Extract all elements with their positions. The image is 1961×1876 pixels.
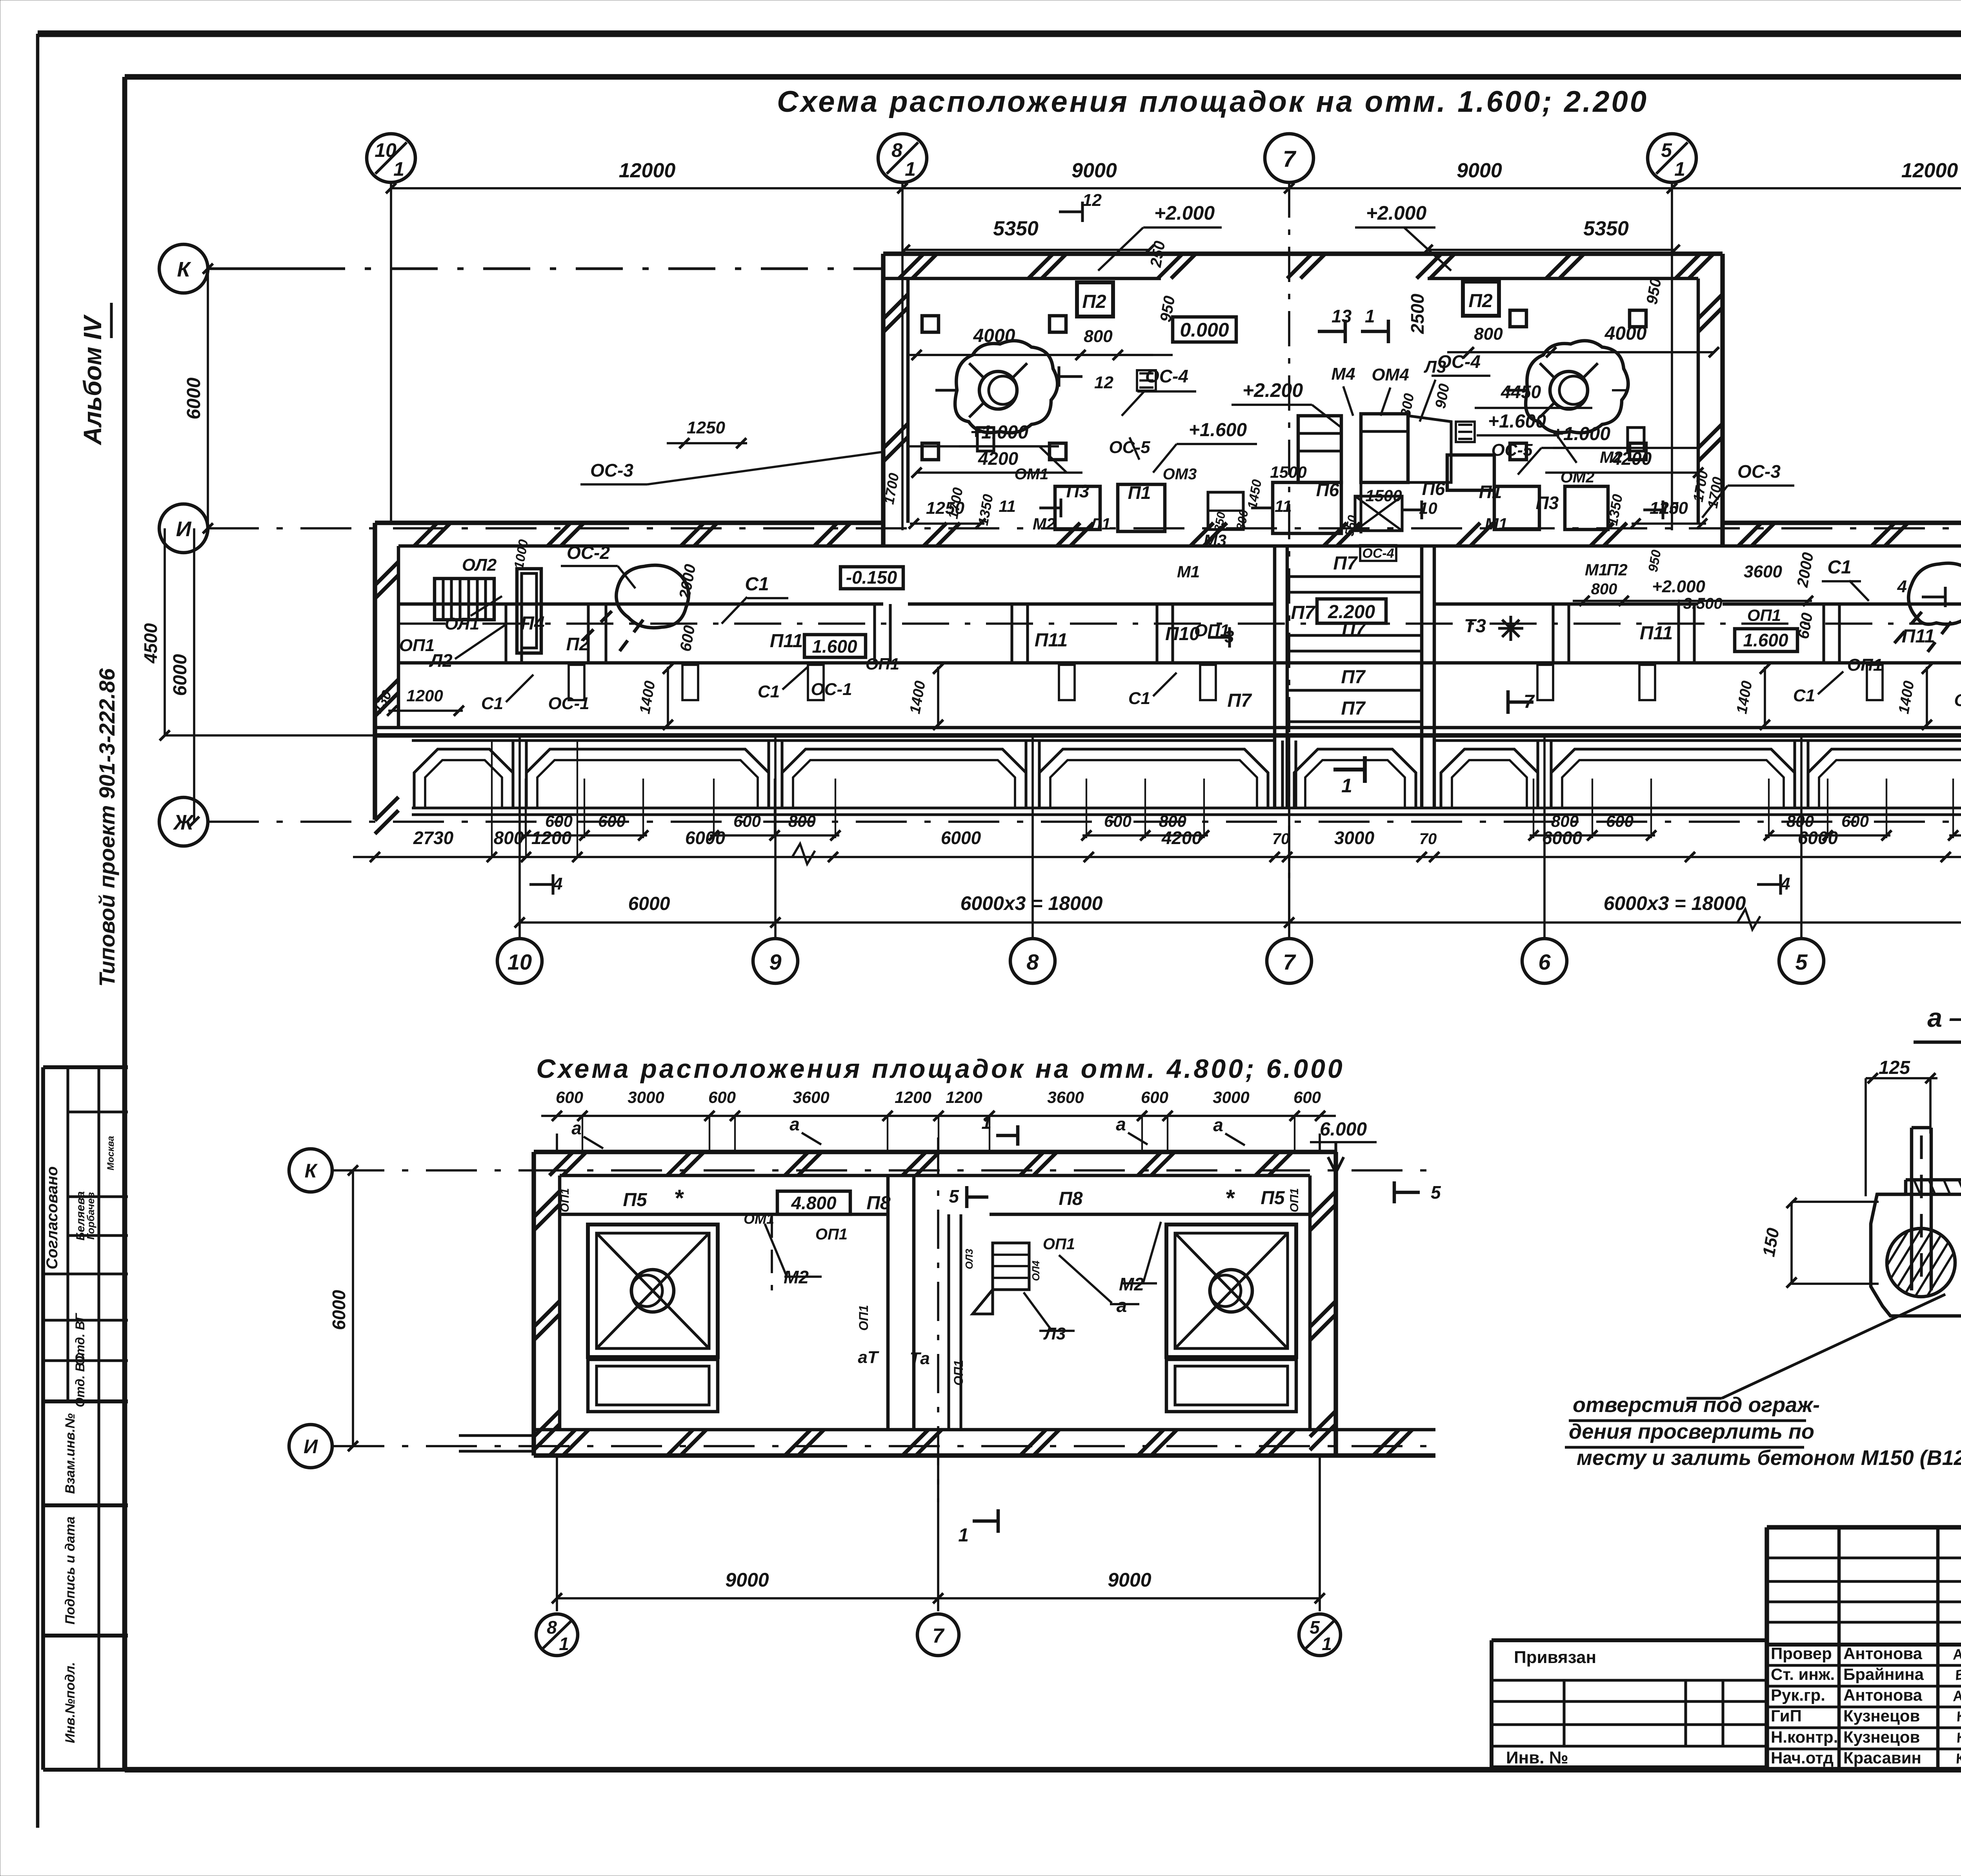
svg-text:а: а [1116, 1114, 1126, 1134]
svg-text:ОМ1: ОМ1 [744, 1211, 774, 1227]
svg-text:5350: 5350 [993, 217, 1039, 240]
svg-text:+1.600: +1.600 [1189, 420, 1247, 440]
svg-text:3600: 3600 [1744, 562, 1782, 581]
svg-text:5: 5 [949, 1186, 959, 1206]
svg-text:10: 10 [508, 950, 532, 974]
svg-text:П5: П5 [623, 1190, 648, 1210]
svg-text:70: 70 [1419, 830, 1437, 848]
svg-text:Л3: Л3 [1043, 1324, 1066, 1343]
svg-text:Нач.отд: Нач.отд [1771, 1749, 1834, 1767]
svg-text:6000: 6000 [329, 1290, 349, 1330]
svg-text:12: 12 [1094, 373, 1113, 392]
svg-text:ОС-1: ОС-1 [1954, 691, 1961, 710]
svg-text:И: И [176, 517, 192, 541]
svg-text:С1: С1 [1827, 557, 1851, 578]
svg-text:Л2: Л2 [429, 650, 453, 671]
svg-text:8: 8 [1026, 950, 1039, 974]
svg-text:ОС-5: ОС-5 [1491, 440, 1533, 460]
svg-text:800: 800 [494, 828, 524, 848]
svg-text:С1: С1 [481, 694, 503, 713]
svg-text:ОС-4: ОС-4 [1145, 366, 1188, 386]
svg-text:8: 8 [547, 1617, 557, 1638]
svg-text:П11: П11 [1640, 623, 1673, 644]
svg-text:П2: П2 [1468, 291, 1493, 311]
svg-text:Отд. ВС: Отд. ВС [73, 1354, 87, 1407]
svg-text:дения просверлить по: дения просверлить по [1569, 1420, 1814, 1443]
svg-text:ОМ3: ОМ3 [1163, 466, 1197, 483]
svg-text:ОП1: ОП1 [399, 636, 435, 655]
svg-text:Н.контр.: Н.контр. [1771, 1728, 1838, 1746]
svg-text:ОС-5: ОС-5 [1109, 438, 1150, 457]
svg-text:М2: М2 [1033, 515, 1055, 533]
svg-text:а: а [1117, 1296, 1127, 1316]
svg-text:ОП1: ОП1 [951, 1360, 966, 1386]
svg-text:600: 600 [1293, 1088, 1321, 1106]
svg-text:ОЛ1: ОЛ1 [445, 614, 479, 633]
svg-text:Согласовано: Согласовано [44, 1166, 61, 1270]
svg-text:П4: П4 [520, 613, 544, 634]
svg-text:6000х3 = 18000: 6000х3 = 18000 [1604, 892, 1746, 914]
svg-text:ОЛ2: ОЛ2 [462, 555, 497, 575]
svg-text:4: 4 [1897, 577, 1907, 596]
svg-text:5: 5 [1661, 139, 1672, 161]
svg-text:ОС-4: ОС-4 [1362, 546, 1394, 561]
svg-text:П2: П2 [1606, 560, 1628, 579]
svg-text:К: К [305, 1160, 318, 1182]
svg-text:Привязан: Привязан [1514, 1648, 1596, 1667]
svg-text:ОМ1: ОМ1 [1015, 466, 1049, 483]
svg-text:+1.000: +1.000 [970, 422, 1028, 443]
svg-text:Подпись и дата: Подпись и дата [63, 1516, 78, 1625]
svg-text:9000: 9000 [1071, 159, 1117, 182]
svg-text:Та: Та [910, 1349, 930, 1368]
svg-text:12000: 12000 [1901, 159, 1958, 182]
svg-text:+2.000: +2.000 [1154, 202, 1215, 224]
svg-text:ОП1: ОП1 [1747, 606, 1781, 624]
svg-text:9000: 9000 [1108, 1569, 1151, 1591]
svg-text:отверстия под ограж-: отверстия под ограж- [1573, 1393, 1820, 1417]
svg-text:ОП1: ОП1 [857, 1305, 871, 1331]
svg-text:Горбачев: Горбачев [85, 1192, 96, 1240]
svg-text:месту и залить бетоном М150 (В: месту и залить бетоном М150 (В12,5). [1577, 1446, 1961, 1470]
svg-text:1200: 1200 [946, 1088, 982, 1106]
svg-text:4000: 4000 [973, 326, 1015, 346]
svg-text:1: 1 [981, 1112, 991, 1133]
svg-text:7: 7 [1283, 950, 1296, 974]
svg-text:5: 5 [1431, 1182, 1441, 1203]
svg-text:И: И [304, 1436, 318, 1457]
svg-text:6000: 6000 [184, 377, 204, 419]
svg-text:9: 9 [769, 950, 781, 974]
svg-text:0.000: 0.000 [1180, 319, 1229, 341]
svg-text:6000: 6000 [941, 828, 981, 848]
svg-text:600: 600 [598, 812, 626, 830]
svg-text:Красавин: Красавин [1843, 1749, 1921, 1767]
svg-text:Антонова: Антонова [1843, 1644, 1923, 1663]
svg-text:П2: П2 [1082, 291, 1106, 312]
svg-text:3000: 3000 [1213, 1088, 1249, 1106]
svg-text:1500: 1500 [1270, 463, 1306, 481]
svg-text:ОП1: ОП1 [815, 1226, 848, 1243]
svg-text:3000: 3000 [1334, 828, 1375, 848]
svg-text:С1: С1 [758, 682, 780, 701]
svg-text:П11: П11 [770, 631, 803, 651]
svg-text:Антонова: Антонова [1843, 1686, 1923, 1704]
svg-text:800: 800 [1474, 324, 1503, 344]
svg-text:5: 5 [1310, 1617, 1320, 1638]
svg-text:600: 600 [1141, 1088, 1168, 1106]
svg-text:1: 1 [393, 158, 404, 180]
svg-text:ОП1: ОП1 [1043, 1236, 1075, 1253]
svg-text:Взам.инв.№: Взам.инв.№ [63, 1413, 78, 1494]
svg-text:П7: П7 [1227, 690, 1252, 711]
svg-text:600: 600 [1606, 812, 1634, 830]
svg-text:+1.600: +1.600 [1488, 411, 1546, 432]
svg-text:4.800: 4.800 [791, 1193, 837, 1213]
svg-text:ОП1: ОП1 [558, 1188, 571, 1212]
svg-text:П3: П3 [1066, 481, 1090, 501]
svg-text:2730: 2730 [413, 828, 454, 848]
svg-text:1: 1 [559, 1634, 569, 1654]
svg-text:800: 800 [1591, 580, 1617, 598]
svg-text:3600: 3600 [793, 1088, 829, 1106]
svg-text:1200: 1200 [406, 686, 443, 705]
svg-text:4200: 4200 [1161, 828, 1202, 848]
svg-text:6.000: 6.000 [1320, 1119, 1367, 1140]
svg-text:ОМ4: ОМ4 [1372, 365, 1409, 384]
svg-text:1200: 1200 [895, 1088, 931, 1106]
svg-text:600: 600 [1104, 812, 1131, 830]
svg-text:ОП1: ОП1 [866, 655, 899, 673]
svg-text:600: 600 [708, 1088, 736, 1106]
svg-text:ОМ2: ОМ2 [1561, 469, 1595, 486]
svg-text:4500: 4500 [140, 623, 161, 664]
svg-text:Кузнецов: Кузнецов [1843, 1728, 1920, 1746]
svg-text:П11: П11 [1902, 626, 1935, 647]
svg-text:800: 800 [1084, 327, 1113, 346]
svg-text:а: а [571, 1118, 582, 1138]
svg-text:С1: С1 [1128, 689, 1150, 708]
svg-text:12000: 12000 [619, 159, 676, 182]
svg-text:Схема расположения площадок: Схема расположения площадок на отм. 1.60… [777, 85, 1648, 118]
svg-text:П7: П7 [1341, 667, 1366, 688]
svg-text:6000: 6000 [1542, 828, 1583, 848]
svg-text:П7: П7 [1333, 553, 1358, 574]
svg-text:+2.000: +2.000 [1652, 577, 1705, 596]
svg-text:ГиП: ГиП [1771, 1707, 1802, 1725]
svg-text:М2: М2 [1600, 448, 1623, 466]
svg-text:П8: П8 [1059, 1188, 1083, 1209]
svg-text:6000: 6000 [1798, 828, 1838, 848]
svg-text:5350: 5350 [1583, 217, 1629, 240]
svg-text:Схема расположения площадок на: Схема расположения площадок на отм. 4.80… [536, 1054, 1344, 1084]
svg-text:9000: 9000 [1457, 159, 1502, 182]
svg-text:1: 1 [905, 158, 916, 180]
svg-text:2.200: 2.200 [1328, 602, 1375, 622]
svg-text:Москва: Москва [106, 1136, 116, 1170]
svg-text:П7: П7 [1341, 698, 1366, 719]
svg-text:1: 1 [1322, 1634, 1332, 1654]
svg-text:10: 10 [1660, 499, 1679, 517]
svg-text:6000: 6000 [170, 654, 191, 696]
svg-text:а — а: а — а [1927, 1003, 1961, 1033]
svg-text:+3.500: +3.500 [1674, 595, 1722, 612]
svg-text:600: 600 [556, 1088, 583, 1106]
svg-text:П2: П2 [566, 634, 589, 654]
svg-text:6000: 6000 [685, 828, 726, 848]
svg-text:П7: П7 [1291, 602, 1316, 623]
svg-text:125: 125 [1879, 1057, 1910, 1078]
svg-text:М4: М4 [1331, 364, 1355, 384]
svg-text:-0.150: -0.150 [846, 567, 897, 588]
svg-text:11: 11 [999, 497, 1016, 515]
svg-text:ОС-2: ОС-2 [567, 542, 610, 563]
svg-text:ОС-3: ОС-3 [590, 460, 633, 480]
svg-text:С1: С1 [1793, 686, 1815, 705]
svg-text:Ст. инж.: Ст. инж. [1771, 1665, 1835, 1683]
svg-text:Инв. №: Инв. № [1506, 1748, 1568, 1767]
svg-text:3600: 3600 [1047, 1088, 1084, 1106]
svg-text:Ж: Ж [173, 811, 195, 834]
svg-text:1: 1 [958, 1525, 969, 1546]
svg-text:ОП1: ОП1 [1194, 621, 1230, 640]
svg-text:ОС-3: ОС-3 [1737, 461, 1781, 482]
svg-text:Т3: Т3 [1464, 616, 1486, 637]
svg-text:2500: 2500 [1407, 293, 1428, 334]
svg-text:1200: 1200 [531, 828, 572, 848]
svg-text:ОЛ3: ОЛ3 [963, 1248, 975, 1269]
svg-text:70: 70 [1272, 830, 1290, 848]
svg-text:аТ: аТ [858, 1348, 879, 1367]
svg-text:П5: П5 [1261, 1188, 1285, 1208]
svg-text:6000: 6000 [628, 893, 670, 914]
svg-text:10: 10 [1419, 499, 1437, 517]
svg-text:М1: М1 [1585, 560, 1608, 579]
svg-text:12: 12 [1082, 191, 1102, 210]
svg-text:*: * [674, 1185, 684, 1211]
svg-text:К: К [177, 258, 191, 281]
svg-text:13: 13 [1332, 306, 1352, 326]
svg-text:П11: П11 [1035, 630, 1068, 651]
svg-text:800: 800 [788, 812, 816, 830]
svg-text:600: 600 [1841, 812, 1869, 830]
svg-text:+2.000: +2.000 [1366, 202, 1427, 224]
svg-text:1.600: 1.600 [812, 636, 857, 657]
svg-text:ОП1: ОП1 [1288, 1188, 1301, 1212]
svg-text:Брайнина: Брайнина [1843, 1665, 1924, 1683]
svg-text:а: а [1213, 1115, 1223, 1135]
svg-text:1: 1 [1341, 775, 1352, 797]
svg-text:+1.000: +1.000 [1552, 424, 1610, 444]
svg-text:7: 7 [1283, 146, 1297, 172]
svg-text:4: 4 [1780, 874, 1790, 893]
svg-text:Типовой проект 901-3-222.86: Типовой проект 901-3-222.86 [95, 668, 119, 987]
svg-text:а: а [789, 1114, 800, 1134]
svg-text:Л3: Л3 [1424, 357, 1446, 377]
svg-text:Альбом IV: Альбом IV [78, 314, 107, 446]
svg-text:4000: 4000 [1604, 323, 1647, 344]
svg-text:6: 6 [1538, 950, 1551, 974]
svg-text:4: 4 [553, 874, 562, 893]
svg-text:9000: 9000 [725, 1569, 769, 1591]
svg-text:7: 7 [933, 1625, 945, 1647]
svg-text:5: 5 [1795, 950, 1808, 974]
svg-text:6000х3 = 18000: 6000х3 = 18000 [960, 892, 1103, 914]
svg-text:С1: С1 [745, 574, 769, 595]
svg-text:3000: 3000 [628, 1088, 664, 1106]
svg-text:ОЛ4: ОЛ4 [1030, 1260, 1042, 1281]
svg-text:1: 1 [1365, 306, 1375, 326]
svg-text:1250: 1250 [687, 418, 725, 437]
svg-text:8: 8 [891, 139, 902, 161]
svg-text:М1: М1 [1177, 562, 1200, 581]
svg-text:Провер: Провер [1771, 1644, 1832, 1663]
svg-text:Рук.гр.: Рук.гр. [1771, 1686, 1825, 1704]
svg-text:11: 11 [1275, 497, 1292, 515]
svg-text:1.600: 1.600 [1743, 630, 1788, 650]
svg-text:4450: 4450 [1501, 382, 1541, 402]
svg-text:600: 600 [733, 812, 761, 830]
svg-text:*: * [1225, 1185, 1235, 1211]
svg-text:Инв.№подл.: Инв.№подл. [63, 1662, 78, 1743]
svg-text:ОС-1: ОС-1 [811, 680, 852, 699]
svg-text:1: 1 [1674, 158, 1685, 180]
svg-text:+2.200: +2.200 [1242, 379, 1303, 401]
svg-text:Кузнецов: Кузнецов [1843, 1707, 1920, 1725]
